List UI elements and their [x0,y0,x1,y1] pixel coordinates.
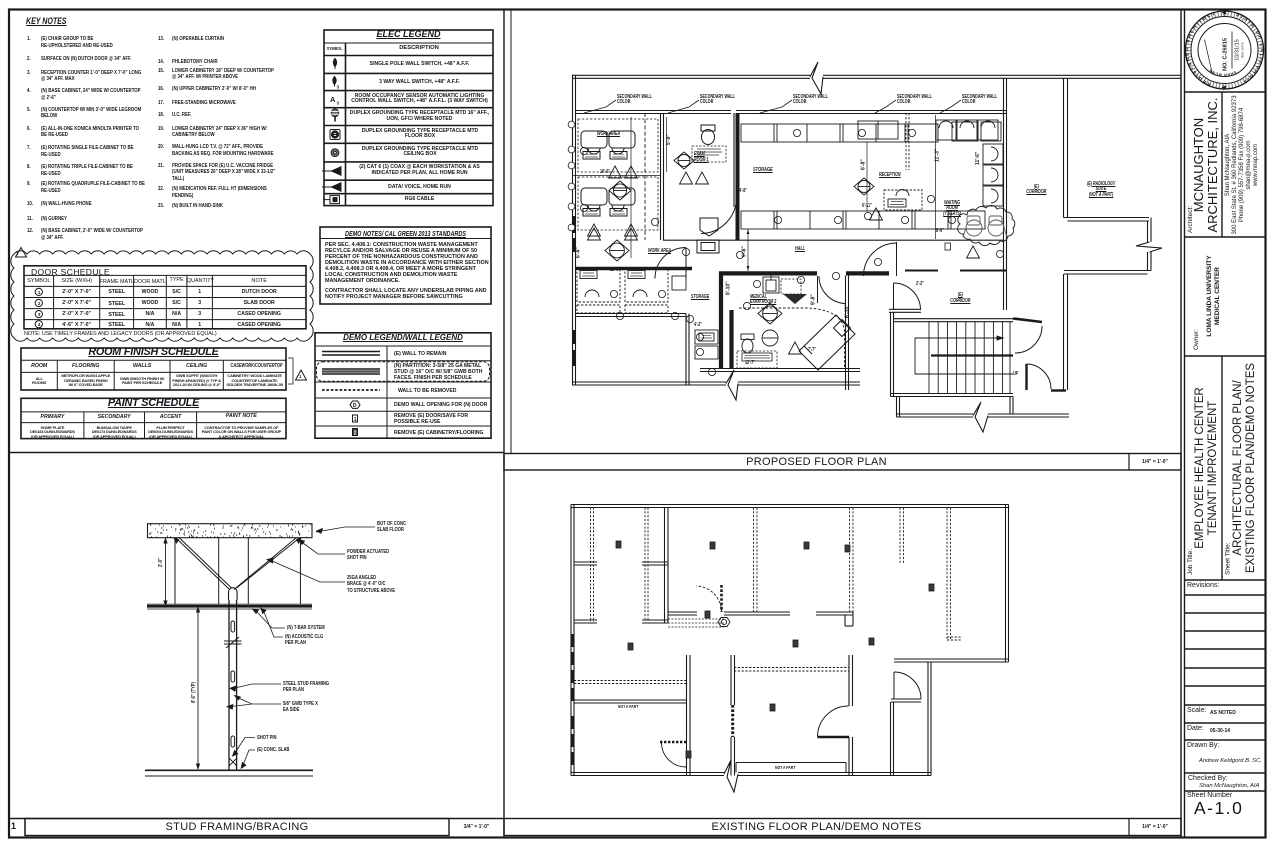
exam2 triangle [789,342,802,354]
rotated dim texts [576,134,982,318]
lower-left room right wall [686,314,689,386]
existing plan right wall [1006,505,1009,663]
demo keyed squares [616,541,934,758]
exam room 2 door arc [818,276,846,304]
removed wall dashed horizontal center [734,668,849,672]
symbol: duplex receptacle [331,109,339,122]
svg-text:LOMA LINDA UNIVERSITY: LOMA LINDA UNIVERSITY [1206,255,1213,337]
dimension 8'-6" (typ) [197,607,200,769]
keynote diamond work area [609,181,631,200]
lower work area desks [577,268,686,302]
svg-text:shan@mna-p.com: shan@mna-p.com [1246,140,1252,189]
corridor right wall [1064,78,1068,218]
proposed floor plan bar text [504,456,1129,468]
corridor bottom wall stubs [889,309,921,312]
not-a-part room top wall [574,700,686,703]
exam2 toilet [741,334,754,353]
exam room 2 top wall poche [719,271,817,275]
office interior top wall [575,111,1006,114]
waiting room top chairs [936,120,998,140]
dimension 2'-0" left [164,538,167,606]
svg-text:MCNAUGHTON: MCNAUGHTON [1191,118,1206,212]
exam2 dark chair [783,294,807,304]
corridor door to stair area [894,283,921,310]
wheelchairs in cloud [963,216,1007,237]
svg-text:★: ★ [1220,9,1229,16]
svg-text:Sheet Title:: Sheet Title: [1225,542,1232,575]
hanger verticals slab to ceiling [175,538,300,604]
hall dim line [747,229,749,271]
plan panel right edge [1180,10,1182,837]
lower work area triangles [588,228,638,240]
elec legend table grid [324,30,493,206]
top exterior wall [572,75,1181,78]
closet2 stubs [642,562,668,623]
waiting room bottom wall [905,270,1006,272]
revision cloud around door schedule [11,251,313,341]
exam room 1 diamond [674,152,694,169]
title block horizontal labels [1187,582,1219,589]
stud break symbol [224,637,242,648]
right room removed walls dashed [900,508,962,641]
lower work area second row partial [577,305,668,313]
stud framing bar text [11,821,16,831]
angled brace left (double line) [176,538,232,589]
reception desk [884,190,922,211]
secondary wall color leaders [584,100,961,113]
symbol: data/voice triangle [322,183,341,191]
storage dim lines [737,115,936,239]
exam2 diamond [758,303,782,324]
demo legend table grid [315,333,491,438]
exam2 sink [763,274,779,293]
pod2 desks [581,188,635,216]
proposed plan text labels [0,0,1,1]
existing floor plan bar text [504,821,1129,833]
svg-text:REN. DATE: REN. DATE [1241,42,1245,58]
storage shelving top row [741,122,1001,142]
symbol: remove (E) cabinetry sq [353,429,358,437]
left closet stubs [574,562,597,623]
exam2 clear space dashed [781,279,801,294]
lobby right door [1027,364,1067,391]
demo notes box border [320,227,491,304]
exam room1 right wall [734,113,737,207]
svg-text:300 East State St. # 360 Redla: 300 East State St. # 360 Redlands, Calif… [1232,95,1238,235]
existing plan top wall [571,505,1009,508]
svg-text:Shan McNaughton, AIA: Shan McNaughton, AIA [1225,134,1231,196]
partition vertical 2 [731,655,735,776]
radiology notch walls [1064,218,1152,275]
partition 2 dashed door segment [731,705,734,737]
svg-text:TENANT IMPROVEMENT: TENANT IMPROVEMENT [1207,401,1219,536]
exam room 1 toilet [701,125,715,145]
reception triangle [870,208,883,220]
wall break symbol top [810,62,823,94]
storage shelving bottom row [741,211,985,229]
symbol: remove (E) door sq [353,415,358,423]
corridor top door stub [891,699,921,702]
partition vertical 1 [687,655,691,776]
left exterior wall [573,75,576,385]
stud detail title bar [9,818,504,820]
svg-text:Owner:: Owner: [1193,329,1200,350]
svg-text:★: ★ [1220,84,1229,91]
exam block bottom wall [700,369,860,386]
exam2 couch rotated [799,315,855,370]
bottom exterior wall left [572,382,726,385]
storage left wall (new partition poche) [736,113,740,240]
exam room 1 clear space dashed [692,146,726,162]
exam2 elevation circle [762,330,778,346]
stair mid landing rail [931,354,1013,356]
angled brace right (double line) [234,538,300,590]
corridor lower right wall [1064,274,1068,390]
revision triangles work area [588,166,638,236]
stair treads [929,322,1010,394]
symbol: single pole switch [333,59,336,70]
symbol: floor box receptacle [330,130,340,140]
small door lower-left [660,742,686,767]
work area counter lower [575,267,692,270]
not a part box bottom [736,763,846,773]
reception dashed wall [906,113,909,170]
paint schedule grid [21,398,286,438]
conc slab floor band [148,524,313,538]
closet2 dashed wall [645,508,648,621]
svg-text:Phone (909) 557-7358 Fax: Phone (909) 557-7358 Fax (909) 798-6874 [1239,107,1245,222]
exam room 1 door arc [701,197,737,234]
existing plan bottom wall [571,773,931,776]
title block rotated texts [1187,95,1259,575]
corridor lower left wall [1004,271,1007,310]
svg-text:ARCHITECTURAL FLOOR PLAN/: ARCHITECTURAL FLOOR PLAN/ [1232,380,1244,556]
demo hexagon symbol [718,618,730,627]
corridor left wall lower [891,702,894,776]
numbered circles [580,129,1003,375]
wall break symbol radiology [1136,242,1162,252]
stair enclosure walls [891,312,1014,396]
symbol: ceiling box receptacle [331,149,339,157]
leader lines [227,527,375,768]
door schedule table grid [24,266,306,329]
exam2 clear space 2 [737,351,777,368]
shot pin at base [229,758,237,766]
dim line work area [573,117,667,258]
storage bottom wall [663,239,1003,241]
removed wall dashed left lower [574,681,688,684]
symbol: wall to be removed (dashed) [322,389,380,391]
svg-text:www.mnap.com: www.mnap.com [1253,144,1259,187]
symbol: (N) partition thick line [322,368,380,370]
stair door top right [1013,319,1042,354]
mid walls row [668,612,853,615]
wall tag squares left wall [568,121,575,231]
right room bottom wall [894,659,1009,662]
title block left edge [1184,10,1186,837]
small storage appliances [695,330,718,359]
symbol: demo wall opening hexagon [350,401,360,409]
exam room 1 triangles [680,172,709,184]
partition vertical 3 + door [849,655,853,776]
work area mid divider dashed [644,113,646,240]
waiting room right chairs [983,144,1003,206]
symbol: (E) wall to remain (double line) [322,351,380,353]
steel stud vertical double line [229,600,237,770]
exam room 2 left wall poche [719,273,723,368]
svg-text:Job Title:: Job Title: [1187,549,1194,575]
stair direction line with arrow [915,336,1013,374]
removed wall dashed vertical 1 [754,508,758,613]
wheelchair revision cloud [958,205,1015,245]
hall door to waiting [864,242,897,276]
wall break symbol bottom [726,370,738,400]
corridor left wall below exam [846,276,849,391]
door symbol circles 1-4 [35,288,42,295]
work area pod 2 dashed boundary [578,177,658,230]
title block section lines [1185,92,1267,791]
svg-text:EMPLOYEE HEALTH CENTER: EMPLOYEE HEALTH CENTER [1194,387,1206,548]
suite right wall [1004,78,1007,271]
corridor door arc [894,672,921,699]
hall lower door arc into exam area [655,248,686,279]
revision cloud dashed around partition row [317,362,490,382]
left panel horizontal divider [9,452,504,454]
reception upper cabinets [858,121,898,139]
center-left solid wall [665,508,669,624]
shot pin arrows at slab [174,538,301,543]
panel divider vertical left/right [503,10,505,837]
revision triangle 1 above door schedule [16,248,27,258]
existing plan left wall [571,505,574,776]
plan panel left inner line [510,10,512,453]
waiting triangle + square [967,246,980,258]
symbol: data triangle workstation [322,167,341,175]
lower-left room top wall [575,314,686,317]
lower lobby walls [897,397,1070,418]
L stub right of mid wall [845,612,853,626]
svg-text:EXISTING FLOOR PLAN/DEMO NOTES: EXISTING FLOOR PLAN/DEMO NOTES [1245,363,1257,574]
removed cabinets dashed below mid wall [668,619,724,627]
symbol: 3-way switch [333,77,340,90]
removed wall dashed vertical 2 [850,508,854,613]
symbol: rg6 tv outlet [323,196,340,204]
existing plan title bar [504,819,1181,836]
upper work area partition wall [661,113,664,240]
stud top cap [229,588,238,600]
(E) conc slab floor lines [145,769,313,771]
work area south pentagon chair [700,218,718,236]
svg-text:ARCHITECTURE, INC.: ARCHITECTURE, INC. [1205,97,1220,232]
work area pod 1 dashed boundary [578,119,658,172]
svg-text:NO. C-26815: NO. C-26815 [1223,38,1229,71]
left wall demo hatch [571,634,575,765]
work area diamond lower [605,240,629,261]
stud knockout ovals [231,621,235,747]
desk label text strokes [582,149,904,358]
left closet dashed wall [591,508,594,623]
left wall filled segments [572,216,576,233]
lobby break symbol [973,402,988,432]
svg-text:MEDICAL CENTER: MEDICAL CENTER [1214,267,1221,325]
existing plan labels [0,0,1,1]
job/sheet title divider [1221,356,1223,580]
pod1 desks [581,131,635,159]
proposed plan title bar [504,454,1181,471]
bottom wall break [724,760,738,792]
stud detail labels [0,0,1,1]
room finish schedule grid [21,348,286,390]
reception diamond [854,178,874,195]
revision triangle 1 right of room finish schedule [296,370,307,380]
mid door dashed leaf + arc [696,585,722,612]
corridor right wall lower [928,662,931,776]
(N) t-bar ceiling line [147,605,312,608]
architect stamp seal [1172,9,1265,845]
work area south cabinet [697,240,719,253]
symbol: occupancy sensor switch A3 [330,95,340,106]
exam2 curtain dashed [739,308,845,368]
architect box divider [1221,92,1223,237]
